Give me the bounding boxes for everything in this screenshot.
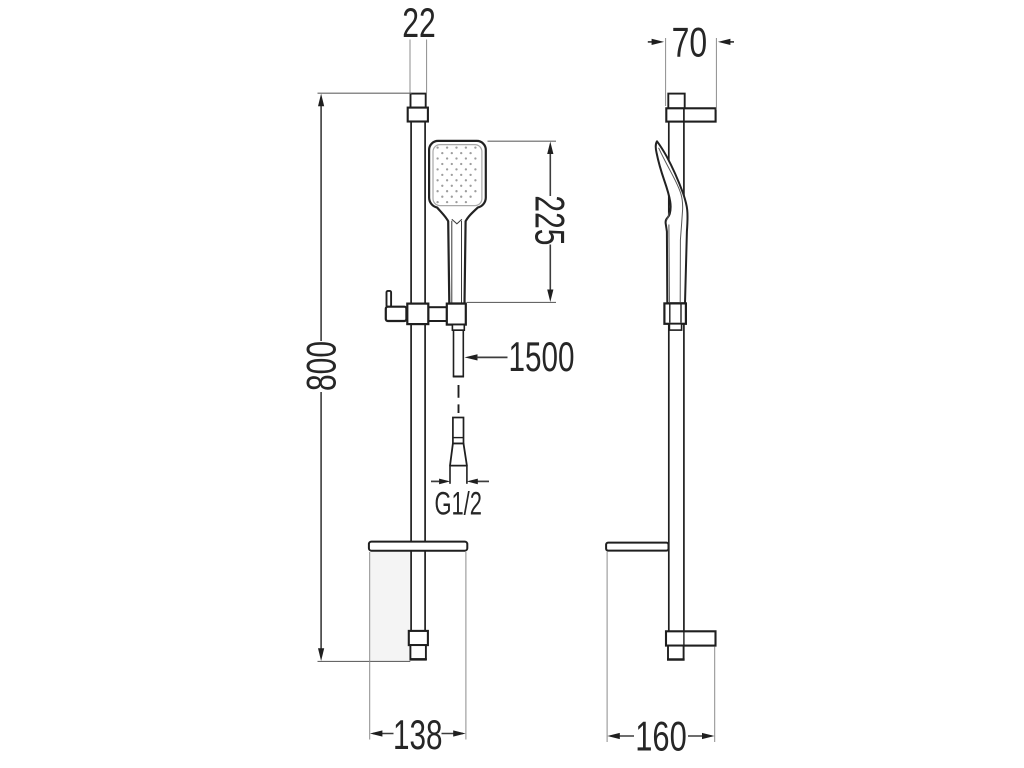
dim 225 line bbox=[549, 150, 551, 196]
dim G1/2 arrows bbox=[431, 480, 441, 482]
dim 138 line bbox=[373, 733, 394, 735]
hose dashed continuation bbox=[458, 385, 460, 413]
hose nut below grip bbox=[452, 325, 464, 331]
dim 70 arrows bbox=[648, 41, 655, 43]
svg-text:G1/2: G1/2 bbox=[434, 486, 482, 522]
slider lower tab bbox=[669, 324, 681, 330]
shelf (front view) bbox=[369, 542, 467, 551]
dim 22 extension lines bbox=[409, 40, 411, 94]
hose end fitting G1/2 bbox=[450, 418, 467, 484]
hand shower head + handle (front) bbox=[429, 141, 486, 304]
dim 800 line bbox=[320, 100, 322, 341]
dim 138 arrows bbox=[370, 730, 383, 736]
svg-text:800: 800 bbox=[297, 341, 344, 391]
hand shower side profile blade bbox=[656, 141, 688, 303]
dim 225 arrows bbox=[547, 142, 553, 155]
top collar bbox=[408, 108, 428, 122]
handle grip block bbox=[447, 304, 466, 325]
hose upper piece bbox=[453, 330, 464, 376]
dim 800 reference line top bbox=[318, 92, 412, 94]
dim 800 arrows bbox=[318, 94, 324, 107]
slider arm bbox=[428, 307, 447, 321]
wire rail left vertical bar bbox=[410, 95, 412, 658]
dim 225 reference line top bbox=[488, 140, 557, 142]
dim 138 extension lines bbox=[369, 552, 371, 740]
shaded area under shelf bbox=[370, 552, 410, 662]
svg-text:138: 138 bbox=[393, 711, 443, 758]
spray face dots bbox=[436, 146, 476, 203]
dim 160 extension lines bbox=[606, 552, 608, 742]
top wall bracket bbox=[666, 108, 715, 121]
svg-text:22: 22 bbox=[402, 0, 436, 46]
svg-text:1500: 1500 bbox=[509, 333, 575, 380]
dim 160 line bbox=[611, 735, 635, 737]
top cap bbox=[411, 94, 426, 108]
dim 70 extension lines bbox=[665, 38, 667, 106]
svg-text:70: 70 bbox=[672, 18, 708, 65]
shelf side view bbox=[606, 543, 668, 551]
slider lock knob body bbox=[386, 307, 407, 321]
top mount tab bbox=[668, 94, 684, 109]
svg-text:225: 225 bbox=[526, 195, 573, 245]
slider body on rail bbox=[407, 304, 428, 325]
bottom wall bracket side bbox=[666, 631, 716, 645]
slider lock knob tab bbox=[387, 291, 392, 307]
dim 225 reference line bottom bbox=[467, 301, 556, 303]
slider side view bbox=[664, 303, 686, 323]
dim 160 arrows bbox=[607, 733, 620, 739]
rail side vertical bar bbox=[668, 95, 670, 632]
svg-text:160: 160 bbox=[635, 712, 687, 759]
bottom collar bbox=[409, 631, 428, 645]
dim 800 reference line bottom bbox=[318, 660, 411, 662]
dim 1500 arrow bbox=[465, 354, 478, 360]
bottom end tab side bbox=[667, 646, 685, 660]
bottom end piece bbox=[410, 645, 427, 659]
